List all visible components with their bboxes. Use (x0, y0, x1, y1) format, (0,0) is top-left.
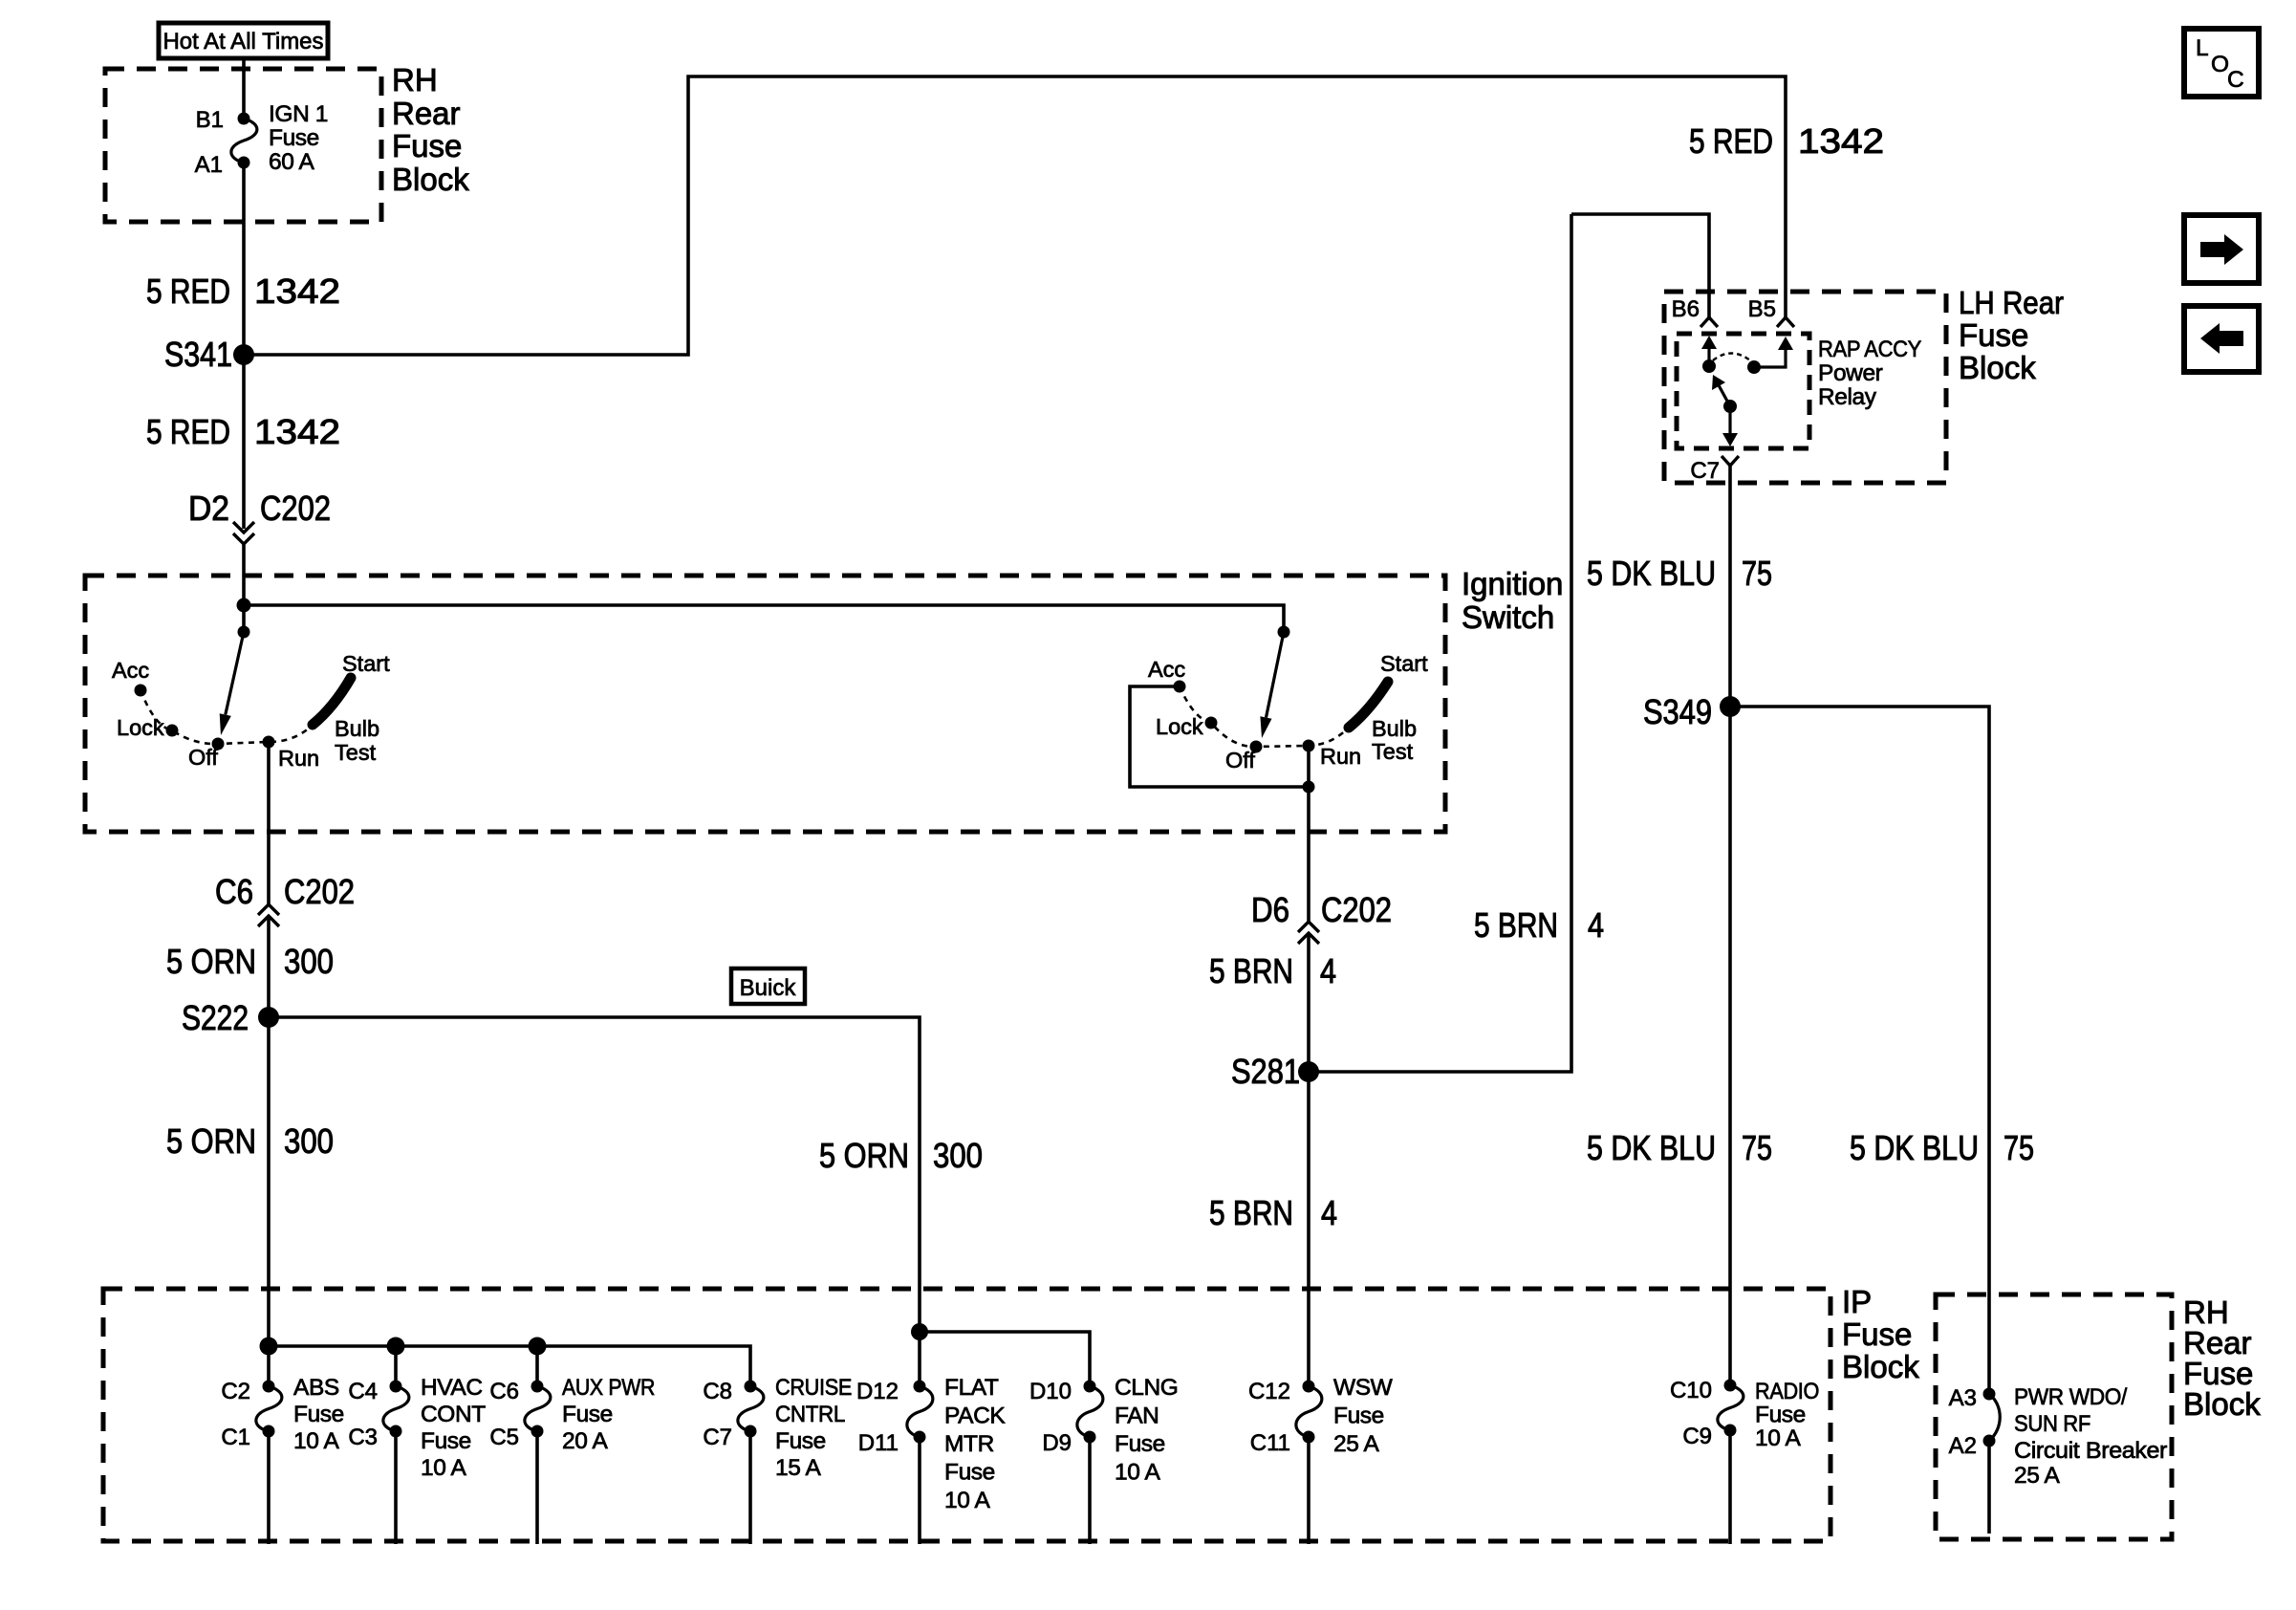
svg-text:10 A: 10 A (1755, 1425, 1802, 1451)
svg-text:C4: C4 (348, 1379, 378, 1404)
wire: C6 down through S222 into IP fuse block bus (267, 916, 271, 1386)
svg-text:1342: 1342 (254, 412, 340, 451)
svg-text:RH: RH (392, 62, 438, 98)
label: 5 BRN 4 (right riser) (1474, 905, 1604, 945)
pin C4 (348, 1379, 378, 1404)
svg-text:10 A: 10 A (944, 1488, 991, 1513)
svg-text:Lock: Lock (117, 715, 164, 740)
block: RH Rear Fuse Block (bottom right, dashed) (1936, 1295, 2172, 1539)
svg-text:S341: S341 (164, 335, 232, 374)
label: Acc (switch 2) (1148, 657, 1185, 682)
connector C6 / C202 (double chevron up) (215, 872, 355, 926)
svg-text:Relay: Relay (1818, 384, 1877, 410)
value label: ABS Fuse 10 A (293, 1375, 344, 1454)
svg-text:Fuse: Fuse (269, 125, 319, 151)
svg-text:A1: A1 (195, 152, 223, 178)
svg-text:CLNG: CLNG (1115, 1375, 1178, 1401)
label: 5 RED 1342 (top right) (1689, 121, 1884, 161)
svg-text:5 BRN: 5 BRN (1474, 905, 1558, 945)
svg-text:Off: Off (188, 745, 218, 770)
pin C6 (489, 1379, 519, 1404)
svg-text:CRUISE: CRUISE (775, 1375, 852, 1401)
svg-text:Test: Test (335, 740, 377, 765)
label: RAP ACCY Power Relay (1818, 337, 1921, 410)
svg-text:C202: C202 (1321, 890, 1392, 929)
value label: RADIO Fuse 10 A (1755, 1379, 1819, 1451)
svg-text:D2: D2 (188, 489, 229, 528)
svg-text:1342: 1342 (1798, 121, 1884, 161)
label: Off (switch 2) (1225, 748, 1255, 772)
svg-text:S281: S281 (1231, 1052, 1300, 1091)
value label: WSW Fuse 25 A (1333, 1375, 1394, 1457)
label: 5 ORN 300 (upper left) (166, 942, 334, 981)
svg-text:RAP ACCY: RAP ACCY (1818, 337, 1921, 362)
label: RH Rear Fuse Block (bottom right) (2183, 1295, 2261, 1422)
svg-text:5 DK BLU: 5 DK BLU (1587, 554, 1716, 593)
block: RH Rear Fuse Block (top left, dashed) (105, 69, 381, 222)
svg-text:D9: D9 (1042, 1430, 1072, 1456)
svg-text:PACK: PACK (944, 1403, 1006, 1429)
connector/pin B6 (chevron) (1672, 296, 1718, 327)
svg-text:CONT: CONT (421, 1402, 486, 1427)
svg-text:C1: C1 (221, 1425, 250, 1450)
svg-text:Lock: Lock (1156, 714, 1203, 739)
connector D6 / C202 (double chevron up) (1251, 890, 1392, 944)
svg-text:C9: C9 (1682, 1424, 1712, 1449)
block: LH Rear Fuse Block (dashed) (1664, 292, 1946, 483)
label: Start (switch 2) (1380, 651, 1428, 676)
svg-text:Fuse: Fuse (944, 1460, 995, 1486)
svg-text:5 ORN: 5 ORN (166, 1121, 256, 1161)
svg-text:HVAC: HVAC (421, 1375, 483, 1401)
pin A2 (1949, 1433, 1977, 1459)
switch: ignition switch pole 2 (1174, 626, 1389, 753)
svg-text:10 A: 10 A (421, 1455, 467, 1481)
svg-text:Fuse: Fuse (293, 1402, 344, 1427)
fuse: ABS Fuse 10 A (pins C2/C1) (256, 1381, 282, 1545)
label: Start (switch 1) (342, 651, 390, 676)
label: RH Rear Fuse Block (392, 62, 469, 197)
svg-text:4: 4 (1588, 905, 1604, 945)
svg-text:300: 300 (284, 1121, 334, 1161)
label: Run (switch 1) (278, 746, 319, 771)
svg-text:15 A: 15 A (775, 1455, 822, 1481)
block: Ignition Switch (dashed) (85, 576, 1445, 832)
svg-text:4: 4 (1320, 951, 1336, 990)
node: bus junction at AUX PWR (529, 1338, 547, 1387)
svg-text:D6: D6 (1251, 890, 1289, 929)
pin D12 (856, 1379, 899, 1404)
relay contact: B6 side up-arrow and coil pivot (1701, 336, 1717, 373)
svg-text:C12: C12 (1248, 1379, 1290, 1404)
svg-text:C6: C6 (489, 1379, 519, 1404)
svg-text:WSW: WSW (1333, 1375, 1394, 1401)
label: 5 DK BLU 75 (lower, radio wire) (1587, 1128, 1772, 1167)
svg-text:D11: D11 (858, 1430, 899, 1456)
label: IP Fuse Block (1842, 1284, 1919, 1384)
svg-text:5 ORN: 5 ORN (819, 1136, 909, 1175)
svg-text:5 BRN: 5 BRN (1209, 1193, 1293, 1232)
svg-text:Hot At All Times: Hot At All Times (162, 29, 323, 54)
node: junction Acc loop joins Run wire (1303, 781, 1315, 794)
svg-text:ABS: ABS (293, 1375, 339, 1401)
svg-text:Fuse: Fuse (1115, 1431, 1165, 1457)
wire: switch 1 Run down to connector C6 (267, 742, 271, 905)
pin D10 (1029, 1379, 1072, 1404)
node S281 (splice) (1231, 1052, 1319, 1091)
svg-text:C3: C3 (348, 1425, 378, 1450)
node S349 (splice) (1643, 692, 1741, 731)
wire: battery feed into fuse block (242, 58, 246, 119)
svg-text:C5: C5 (489, 1425, 519, 1450)
svg-text:300: 300 (933, 1136, 983, 1175)
pin C1 (221, 1425, 250, 1450)
svg-text:20 A: 20 A (562, 1428, 609, 1454)
wire: A1 down to S341 and on to connector D2 (242, 163, 246, 529)
pin B1 (196, 107, 224, 133)
connector/pin C7 (chevron) (1690, 456, 1739, 484)
svg-text:Block: Block (2183, 1386, 2261, 1422)
block: IP Fuse Block (dashed) (103, 1289, 1830, 1541)
svg-text:C202: C202 (284, 872, 355, 911)
svg-text:Fuse: Fuse (1755, 1403, 1806, 1428)
wire: S222 branch right and down to flat pack feed (269, 1017, 920, 1386)
value label: CRUISE CNTRL Fuse 15 A (775, 1375, 852, 1481)
svg-text:C7: C7 (703, 1425, 732, 1450)
svg-text:25 A: 25 A (1333, 1431, 1380, 1457)
svg-text:SUN RF: SUN RF (2014, 1411, 2090, 1437)
svg-text:PWR WDO/: PWR WDO/ (2014, 1384, 2128, 1410)
svg-text:5 RED: 5 RED (146, 272, 230, 311)
svg-text:FLAT: FLAT (944, 1375, 999, 1401)
svg-text:4: 4 (1321, 1193, 1337, 1232)
wire: S349 branch right and down to circuit breaker (1730, 707, 1989, 1394)
fuse IGN 1 Fuse 60 A (pins B1/A1) (231, 113, 257, 169)
wire: D6 down through S281 to WSW fuse (1307, 933, 1310, 1386)
svg-text:75: 75 (1742, 1128, 1772, 1167)
svg-text:D10: D10 (1029, 1379, 1072, 1404)
svg-text:75: 75 (1742, 554, 1772, 593)
wire: vertical down to S281 branch (1309, 214, 1571, 1072)
label: 5 DK BLU 75 (upper) (1587, 554, 1772, 593)
svg-text:Rear: Rear (392, 96, 461, 131)
svg-text:Fuse: Fuse (392, 128, 462, 163)
svg-text:C202: C202 (260, 489, 331, 528)
svg-text:O: O (2211, 52, 2229, 77)
svg-text:5 DK BLU: 5 DK BLU (1850, 1128, 1979, 1167)
value label: HVAC CONT Fuse 10 A (421, 1375, 486, 1481)
svg-text:LH Rear: LH Rear (1959, 285, 2064, 320)
svg-text:Circuit Breaker: Circuit Breaker (2014, 1438, 2167, 1464)
fuse: FLAT PACK MTR Fuse 10 A (pins D12/D11) (907, 1381, 933, 1545)
svg-text:Block: Block (392, 162, 469, 197)
svg-text:25 A: 25 A (2014, 1463, 2061, 1489)
pin C3 (348, 1425, 378, 1450)
label: Acc (switch 1) (112, 658, 149, 683)
svg-text:C10: C10 (1670, 1378, 1712, 1403)
label: Lock (switch 1) (117, 715, 164, 740)
svg-text:B5: B5 (1748, 296, 1776, 322)
fuse: WSW Fuse 25 A (pins C12/C11) (1296, 1381, 1322, 1545)
pin C2 (221, 1379, 250, 1404)
connector/pin B5 (chevron) (1748, 296, 1794, 327)
pin C9 (1682, 1424, 1712, 1449)
wire: branch to CLNG FAN fuse (920, 1332, 1090, 1386)
wire: C7 down through S349 to RADIO fuse (1728, 466, 1732, 1385)
svg-text:Fuse: Fuse (1842, 1316, 1912, 1352)
svg-text:1342: 1342 (254, 272, 340, 311)
svg-text:Test: Test (1372, 739, 1414, 764)
wire: D2 to ignition switch junction (242, 544, 246, 632)
svg-text:B1: B1 (196, 107, 224, 133)
wire: Acc loop of switch 2 (1130, 686, 1309, 787)
svg-text:AUX PWR: AUX PWR (562, 1375, 655, 1401)
value label: IGN 1 Fuse 60 A (269, 101, 328, 175)
svg-text:Block: Block (1842, 1349, 1919, 1384)
svg-text:L: L (2196, 35, 2208, 61)
svg-text:Bulb: Bulb (335, 716, 379, 741)
pin C11 (1250, 1430, 1290, 1456)
node: bus junction at ABS (260, 1338, 278, 1356)
svg-text:300: 300 (284, 942, 334, 981)
svg-text:A2: A2 (1949, 1433, 1977, 1459)
node S341 (splice) (164, 335, 254, 374)
value label: FLAT PACK MTR Fuse 10 A (944, 1375, 1006, 1513)
svg-text:10 A: 10 A (1115, 1460, 1161, 1486)
wire: fuse bus from ABS feed (269, 1346, 750, 1386)
icon: arrow right box (2184, 215, 2259, 283)
pin C5 (489, 1425, 519, 1450)
pin C8 (703, 1379, 732, 1404)
svg-text:5 DK BLU: 5 DK BLU (1587, 1128, 1716, 1167)
wire: movable point to B5 with up-arrow (1754, 337, 1793, 367)
svg-text:60 A: 60 A (269, 149, 315, 175)
label: 5 BRN 4 (at D6) (1209, 951, 1336, 990)
svg-text:C2: C2 (221, 1379, 250, 1404)
pin A3 (1949, 1385, 1977, 1411)
svg-text:Acc: Acc (1148, 657, 1185, 682)
label: 5 ORN 300 (Buick branch) (819, 1136, 983, 1175)
label box: Hot At All Times (159, 23, 328, 58)
label box: Buick (731, 968, 805, 1004)
svg-text:Block: Block (1959, 350, 2036, 385)
pin A1 (195, 152, 223, 178)
fuse: RADIO Fuse 10 A (pins C10/C9) (1718, 1380, 1744, 1545)
svg-text:Fuse: Fuse (775, 1428, 826, 1454)
svg-text:B6: B6 (1672, 296, 1700, 322)
node S222 (splice) (182, 998, 279, 1037)
svg-text:75: 75 (2004, 1128, 2034, 1167)
label: 5 ORN 300 (lower left) (166, 1121, 334, 1161)
pin D11 (858, 1430, 899, 1456)
switch: ignition switch pole 1 (Acc/Lock/Off/Run/Start Bulb Test) (135, 626, 352, 751)
svg-text:5 ORN: 5 ORN (166, 942, 256, 981)
svg-text:Bulb: Bulb (1372, 716, 1417, 741)
node: bus junction at HVAC (387, 1338, 405, 1387)
label: Off (switch 1) (188, 745, 218, 770)
label: Bulb Test (switch 1) (335, 716, 379, 765)
label: Bulb Test (switch 2) (1372, 716, 1417, 764)
fuse: CRUISE CNTRL Fuse 15 A (pins C8/C7) (738, 1381, 764, 1545)
svg-text:Acc: Acc (112, 658, 149, 683)
label: 5 RED 1342 (lower) (146, 412, 340, 451)
svg-text:S222: S222 (182, 998, 249, 1037)
fuse: HVAC CONT Fuse 10 A (pins C4/C3) (383, 1381, 409, 1545)
svg-text:IP: IP (1842, 1284, 1872, 1319)
svg-text:D12: D12 (856, 1379, 899, 1404)
label: 5 RED 1342 (upper) (146, 272, 340, 311)
label: LH Rear Fuse Block (1959, 285, 2064, 385)
wire: arm down to C7 with down-arrow (1722, 406, 1738, 446)
svg-text:C8: C8 (703, 1379, 732, 1404)
wire: switch 2 Run down to connector D6 (1307, 746, 1310, 922)
svg-text:Run: Run (278, 746, 319, 771)
svg-text:5 RED: 5 RED (1689, 121, 1773, 161)
relay: dashed actuation arc (1713, 354, 1750, 361)
wire: corner feed to B6 (1571, 214, 1709, 317)
svg-text:Switch: Switch (1462, 599, 1554, 635)
svg-text:C6: C6 (215, 872, 253, 911)
svg-text:Ignition: Ignition (1462, 566, 1563, 601)
svg-text:5 RED: 5 RED (146, 412, 230, 451)
value label: PWR WDO/SUN RF Circuit Breaker 25 A (2014, 1384, 2167, 1489)
value label: CLNG FAN Fuse 10 A (1115, 1375, 1178, 1486)
circuit breaker: PWR WDO/SUN RF 25 A (pins A3/A2) (1983, 1388, 2001, 1534)
label: 5 BRN 4 (below S281) (1209, 1193, 1337, 1232)
label: Ignition Switch (1462, 566, 1563, 635)
svg-text:Start: Start (342, 651, 390, 676)
fuse: CLNG FAN Fuse 10 A (pins D10/D9) (1077, 1381, 1103, 1545)
svg-text:Fuse: Fuse (562, 1402, 613, 1427)
label: Run (switch 2) (1320, 744, 1361, 769)
icon: arrow left box (2184, 306, 2259, 372)
svg-text:CNTRL: CNTRL (775, 1402, 845, 1427)
svg-text:FAN: FAN (1115, 1403, 1159, 1429)
svg-text:Run: Run (1320, 744, 1361, 769)
svg-text:Fuse: Fuse (421, 1428, 471, 1454)
svg-text:Power: Power (1818, 360, 1883, 386)
value label: AUX PWR Fuse 20 A (562, 1375, 655, 1454)
label: Lock (switch 2) (1156, 714, 1203, 739)
label: 5 DK BLU 75 (lower, breaker wire) (1850, 1128, 2034, 1167)
relay switch arm with arrowhead toward pivot (1712, 375, 1737, 413)
node: junction in ignition switch feed (237, 598, 251, 613)
relay contact: movable point dot (1747, 360, 1761, 374)
fuse: AUX PWR Fuse 20 A (pins C6/C5) (525, 1381, 551, 1545)
svg-text:MTR: MTR (944, 1431, 994, 1457)
svg-text:C: C (2227, 67, 2243, 93)
svg-text:5 BRN: 5 BRN (1209, 951, 1293, 990)
svg-text:C7: C7 (1690, 458, 1720, 484)
svg-text:Fuse: Fuse (1333, 1403, 1384, 1429)
relay: RAP ACCY Power Relay (inner dashed box) (1677, 334, 1809, 448)
svg-text:Buick: Buick (740, 975, 797, 1001)
svg-text:A3: A3 (1949, 1385, 1977, 1411)
svg-text:C11: C11 (1250, 1430, 1290, 1456)
svg-text:S349: S349 (1643, 692, 1712, 731)
node: junction flat pack feed (911, 1323, 928, 1340)
pin C7 (703, 1425, 732, 1450)
wire: S341 right/up/right to B5 (244, 76, 1786, 355)
pin D9 (1042, 1430, 1072, 1456)
connector D2 / C202 (double chevron down) (188, 489, 331, 544)
wire: feed across to second switch pole (244, 605, 1284, 632)
icon: LOC reference box (2184, 29, 2259, 97)
svg-text:10 A: 10 A (293, 1428, 340, 1454)
svg-text:Off: Off (1225, 748, 1255, 772)
pin C10 (1670, 1378, 1712, 1403)
svg-text:Fuse: Fuse (1959, 317, 2028, 353)
svg-text:IGN 1: IGN 1 (269, 101, 328, 127)
svg-text:Start: Start (1380, 651, 1428, 676)
svg-text:RADIO: RADIO (1755, 1379, 1819, 1404)
pin C12 (1248, 1379, 1290, 1404)
